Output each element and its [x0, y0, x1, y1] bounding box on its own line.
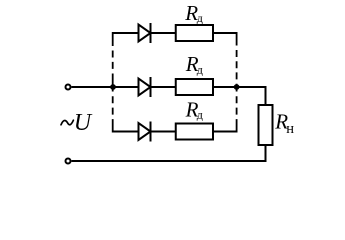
svg-text:д: д [197, 107, 203, 121]
svg-text:д: д [197, 11, 203, 25]
svg-text:н: н [286, 121, 294, 137]
svg-text:д: д [197, 62, 203, 76]
svg-text:U: U [74, 110, 93, 136]
